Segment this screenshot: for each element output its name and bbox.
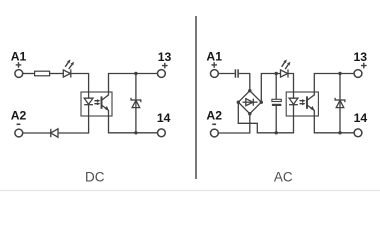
svg-text:13: 13 — [354, 50, 368, 64]
wire A2 to bridge bottom vertex — [218, 114, 249, 133]
wire D1 to U1 LED cathode — [58, 116, 89, 133]
wire A1 to R1 — [23, 73, 35, 75]
optocoupler U2 box — [286, 92, 318, 116]
terminal A1 (DC) — [11, 50, 27, 78]
svg-text:A2: A2 — [11, 109, 27, 123]
svg-text:A1: A1 — [11, 50, 27, 64]
optocoupler U2 light arrows — [300, 99, 306, 105]
optocoupler U2 phototransistor — [307, 92, 315, 116]
optocoupler U1 light arrows — [94, 99, 100, 105]
terminal A2 (DC) — [11, 109, 27, 137]
wire bridge left vertex (DC minus) to bottom rail — [238, 102, 293, 133]
terminal 14 (AC) — [354, 111, 368, 137]
capacitor C2 (smoothing, polarized) — [272, 74, 281, 133]
optocoupler U1 phototransistor — [102, 92, 110, 116]
optocoupler U1 internal LED — [84, 92, 93, 116]
node bridge left vertex — [237, 101, 240, 104]
junction node (capacitor C2 top) — [275, 72, 278, 75]
label AC — [274, 170, 293, 185]
wire U2 emitter to terminal 14 rail — [314, 116, 354, 133]
terminal 13 (AC) — [354, 50, 368, 77]
node bridge bottom vertex — [248, 112, 251, 115]
junction node (zener Z2 bottom) — [338, 131, 341, 134]
svg-text:14: 14 — [354, 111, 368, 125]
svg-text:DC: DC — [85, 170, 105, 185]
bridge rectifier B1 — [238, 91, 261, 114]
terminal 13 (DC) — [158, 50, 172, 77]
baseline rule at page bottom — [0, 190, 380, 191]
junction node (zener Z2 top) — [338, 72, 341, 75]
divider line between DC and AC sections — [195, 16, 197, 179]
wire A1 to capacitor C1 — [218, 73, 234, 75]
wire LED V1 to optocoupler U1 LED anode — [71, 74, 89, 93]
optocoupler U2 internal LED — [289, 92, 298, 116]
optocoupler U1 box — [81, 92, 112, 116]
wire bridge right vertex to LED V2 — [261, 74, 280, 103]
wire LED V2 to optocoupler U2 LED anode — [288, 74, 294, 93]
svg-text:A1: A1 — [206, 50, 222, 64]
node bridge top vertex — [248, 89, 251, 92]
node bridge right vertex — [260, 101, 263, 104]
svg-text:A2: A2 — [206, 109, 222, 123]
LED V1 (DC input indicator) — [63, 59, 74, 77]
wire U1 emitter to terminal 14 rail — [109, 116, 158, 133]
capacitor C1 (series input) — [235, 69, 238, 77]
terminal 14 (DC) — [157, 111, 171, 137]
wire U1 collector to terminal 13 rail — [109, 74, 158, 93]
resistor R1 — [35, 71, 50, 76]
svg-text:13: 13 — [158, 50, 172, 64]
wire R1 to LED V1 — [50, 73, 64, 75]
junction node (zener Z1 top) — [134, 72, 137, 75]
svg-text:AC: AC — [274, 170, 293, 185]
terminal A2 (AC) — [206, 109, 222, 137]
diode D1 (reverse polarity protection) — [51, 129, 58, 137]
zener diode Z2 — [335, 74, 345, 133]
wire A2 to diode D1 — [23, 132, 51, 134]
junction node (capacitor C2 bottom) — [275, 131, 278, 134]
wire C1 to bridge top vertex — [239, 74, 250, 91]
wire U2 collector to terminal 13 rail — [314, 74, 354, 93]
LED V2 (AC input indicator) — [281, 59, 291, 77]
terminal A1 (AC) — [206, 50, 222, 78]
label DC — [85, 170, 105, 185]
junction node (zener Z1 bottom) — [134, 131, 137, 134]
zener diode Z1 — [131, 74, 141, 133]
svg-text:14: 14 — [157, 111, 171, 125]
